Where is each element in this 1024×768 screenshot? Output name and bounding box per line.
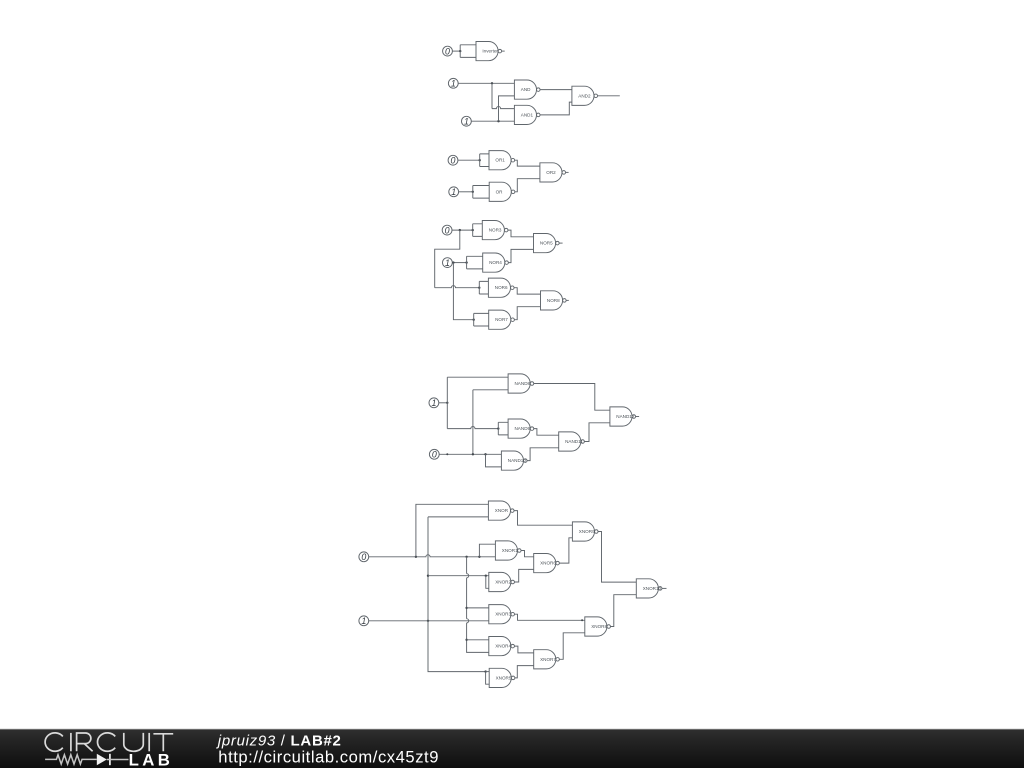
wire bus3 stub to XNOR3 top input bbox=[467, 607, 489, 609]
wire XNOR10 output bbox=[662, 587, 667, 589]
wire OR output to OR2 bottom input bbox=[515, 179, 540, 192]
svg-text:0: 0 bbox=[432, 450, 437, 460]
junction bbox=[427, 620, 429, 622]
junction bbox=[427, 575, 429, 577]
gate NAND12 bbox=[610, 407, 636, 426]
wire input 0 to OR1 loop bbox=[458, 159, 480, 161]
gate XNOR10 bbox=[636, 579, 662, 598]
gate XNOR9 bbox=[572, 522, 598, 541]
node IN_E1 input terminal 1 bbox=[429, 398, 439, 408]
gate XNOR8 bbox=[585, 617, 611, 636]
wire AND output to AND2 top input bbox=[540, 89, 572, 91]
wire bus2 stub to XNOR2 top input bbox=[428, 575, 489, 577]
wire branch up to AND bottom input bbox=[499, 96, 515, 121]
junction bbox=[473, 319, 475, 321]
gate NAND9 bbox=[508, 419, 534, 438]
wire bus3 vertical with hops to XNOR4 bottom input bbox=[467, 557, 489, 653]
wire across to NOR6 loop with hop bbox=[435, 286, 480, 288]
footer background bar bbox=[0, 729, 1024, 768]
wire into XNOR5 top input bbox=[486, 671, 490, 673]
wire OR1 input loop bbox=[480, 154, 489, 167]
junction bbox=[465, 261, 467, 263]
wire to NAND9 loop with hop bbox=[447, 427, 498, 429]
gate NOR5 bbox=[534, 234, 560, 253]
svg-text:XNOR3: XNOR3 bbox=[495, 612, 511, 617]
wire NAND10 input loop bbox=[486, 454, 502, 467]
wire NOR8 output bbox=[566, 299, 569, 301]
svg-text:XNOR1: XNOR1 bbox=[502, 548, 518, 553]
wire NOR7 input loop bbox=[474, 313, 489, 326]
node IN_A input terminal 0 bbox=[443, 46, 453, 56]
gate U1 bbox=[476, 42, 502, 61]
svg-text:1: 1 bbox=[451, 79, 456, 89]
wire XNOR3 output to XNOR8 top input bbox=[515, 614, 585, 620]
node IN_E2 input terminal 0 bbox=[429, 449, 439, 459]
wire NOR6 output to NOR8 top input bbox=[514, 288, 540, 294]
wire input 0 right bbox=[452, 229, 473, 231]
svg-text:OR1: OR1 bbox=[495, 158, 505, 163]
junction bbox=[484, 453, 486, 455]
svg-text:OR2: OR2 bbox=[546, 170, 556, 175]
junction bbox=[452, 261, 454, 263]
svg-text:1: 1 bbox=[464, 117, 469, 127]
gate OR bbox=[489, 182, 515, 201]
wire NAND8 output to NAND12 top input bbox=[534, 384, 610, 411]
svg-text:XNOR: XNOR bbox=[495, 508, 509, 513]
wire input 1 right bbox=[452, 262, 466, 264]
junction bbox=[415, 556, 417, 558]
gate XNOR bbox=[488, 501, 514, 520]
gate NAND10 bbox=[501, 451, 527, 470]
gate XNOR7 bbox=[534, 650, 560, 669]
gate NOR6 bbox=[488, 278, 514, 297]
gate AND2 bbox=[572, 86, 598, 105]
gate NAND11 bbox=[559, 432, 585, 451]
wire OR1 output to OR2 top input bbox=[515, 160, 540, 166]
svg-text:XNOR9: XNOR9 bbox=[579, 529, 595, 534]
node IN_D2 input terminal 1 bbox=[443, 258, 453, 268]
wire OR input loop bbox=[473, 186, 489, 199]
wire XNOR9 output to XNOR10 top input bbox=[598, 532, 636, 583]
svg-text:NOR6: NOR6 bbox=[495, 285, 508, 290]
gate NOR3 bbox=[482, 221, 508, 240]
svg-text:XNOR5: XNOR5 bbox=[496, 675, 512, 680]
wire XNOR4 output to XNOR7 top input bbox=[515, 646, 534, 653]
svg-text:NOR5: NOR5 bbox=[540, 241, 553, 246]
node IN_F2 input terminal 1 bbox=[359, 616, 369, 626]
svg-text:1: 1 bbox=[445, 258, 450, 268]
wire input 1 stub bbox=[439, 402, 448, 404]
wire 1 branch down to NOR7 bbox=[453, 263, 473, 320]
wire XNOR5 output to XNOR7 bottom input bbox=[515, 666, 534, 678]
svg-text:XNOR4: XNOR4 bbox=[495, 644, 511, 649]
svg-text:NAND10: NAND10 bbox=[508, 458, 527, 463]
wire XNOR6 output to XNOR9 bottom input bbox=[559, 538, 572, 563]
junction bbox=[497, 427, 499, 429]
wire bus2 vertical down to XNOR5 bbox=[428, 517, 486, 672]
junction bbox=[491, 82, 493, 84]
svg-text:LAB: LAB bbox=[129, 750, 174, 768]
gate OR1 bbox=[489, 151, 515, 170]
junction bbox=[472, 191, 474, 193]
gate XNOR1 bbox=[495, 541, 521, 560]
wire vertical branch of 1 bbox=[446, 377, 448, 428]
junction bbox=[465, 607, 467, 609]
wire NAND9 input loop bbox=[498, 422, 508, 435]
svg-text:0: 0 bbox=[361, 552, 366, 562]
wire bus2 top to XNOR bottom input bbox=[428, 516, 488, 518]
svg-text:AND1: AND1 bbox=[521, 112, 534, 117]
svg-text:NOR7: NOR7 bbox=[495, 317, 508, 322]
svg-text:Inverter: Inverter bbox=[482, 49, 498, 54]
svg-text:1: 1 bbox=[451, 187, 456, 197]
gate NOR4 bbox=[483, 253, 509, 272]
junction bbox=[446, 402, 448, 404]
svg-text:NAND9: NAND9 bbox=[515, 426, 531, 431]
gate NAND8 bbox=[508, 374, 534, 393]
svg-text:NOR4: NOR4 bbox=[489, 260, 502, 265]
wire NAND9 output to NAND11 top input bbox=[534, 429, 559, 436]
junction bbox=[485, 575, 487, 577]
svg-text:XNOR2: XNOR2 bbox=[495, 580, 511, 585]
junction bbox=[459, 50, 461, 52]
node IN_D1 input terminal 0 bbox=[442, 225, 452, 235]
wire XNOR2 output to XNOR6 bottom input bbox=[515, 569, 534, 582]
wire XNOR2 input loop bbox=[486, 576, 489, 589]
svg-text:XNOR10: XNOR10 bbox=[643, 586, 662, 591]
gate NOR7 bbox=[489, 310, 515, 329]
junction bbox=[465, 639, 467, 641]
wire AND2 output bbox=[598, 95, 620, 97]
junction bbox=[459, 229, 461, 231]
wire XNOR1 input loop bbox=[479, 544, 495, 557]
wire NOR3 input loop bbox=[473, 224, 483, 237]
wire input 0 to loop bbox=[452, 50, 460, 52]
svg-text:OR: OR bbox=[496, 189, 504, 194]
svg-text:NAND8: NAND8 bbox=[515, 381, 531, 386]
svg-text:http://circuitlab.com/cx45zt9: http://circuitlab.com/cx45zt9 bbox=[218, 748, 439, 767]
node IN_C1 input terminal 0 bbox=[448, 155, 458, 165]
node IN_B2 input terminal 1 bbox=[462, 116, 472, 126]
junction bbox=[465, 556, 467, 558]
gate XNOR6 bbox=[534, 554, 560, 573]
junction bbox=[478, 556, 480, 558]
wire XNOR5 input loop bbox=[486, 672, 490, 685]
junction bbox=[581, 619, 583, 621]
gate XNOR4 bbox=[489, 637, 515, 656]
svg-text:AND: AND bbox=[521, 87, 531, 92]
gate NOR8 bbox=[541, 291, 567, 310]
svg-text:NOR8: NOR8 bbox=[547, 298, 560, 303]
node IN_C2 input terminal 1 bbox=[449, 187, 459, 197]
wire NOR5 output bbox=[559, 242, 562, 244]
wire NOR4 output to NOR5 bottom input bbox=[508, 249, 533, 262]
svg-text:XNOR7: XNOR7 bbox=[540, 657, 556, 662]
svg-text:XNOR8: XNOR8 bbox=[591, 624, 607, 629]
wire NOR7 output to NOR8 bottom input bbox=[514, 307, 540, 320]
wire to NAND8 bottom input bbox=[473, 389, 508, 391]
node IN_B1 input terminal 1 bbox=[448, 78, 458, 88]
svg-text:1: 1 bbox=[431, 398, 436, 408]
CircuitLab logo word CIRCUIT bbox=[45, 733, 173, 751]
junction bbox=[472, 453, 474, 455]
junction bbox=[497, 120, 499, 122]
svg-text:0: 0 bbox=[451, 156, 456, 166]
svg-text:NAND11: NAND11 bbox=[565, 439, 583, 444]
wire NAND11 output to NAND12 bottom input bbox=[584, 423, 610, 442]
wire to NAND8 top input bbox=[447, 376, 508, 378]
wire NOR6 input loop bbox=[479, 281, 488, 294]
gate XNOR2 bbox=[489, 572, 515, 591]
svg-text:XNOR6: XNOR6 bbox=[540, 561, 556, 566]
wire 0 branch down-left-down bbox=[435, 230, 460, 288]
svg-text:NOR3: NOR3 bbox=[489, 228, 502, 233]
junction bbox=[472, 229, 474, 231]
svg-text:1: 1 bbox=[361, 616, 366, 626]
svg-text:NAND12: NAND12 bbox=[616, 414, 635, 419]
svg-text:0: 0 bbox=[445, 225, 450, 235]
wire inverter input loop bbox=[460, 45, 476, 58]
gate OR2 bbox=[540, 163, 566, 182]
junction bbox=[479, 159, 481, 161]
wire input 1 to AND top input bbox=[458, 82, 514, 84]
wire input 1 to AND1 bottom input bbox=[471, 120, 514, 122]
gate AND bbox=[514, 80, 540, 99]
wire vertical joining 0 line to NAND8 bottom input bbox=[472, 390, 474, 455]
wire XNOR8 output to XNOR10 bottom input bbox=[611, 595, 637, 627]
junction bbox=[446, 453, 448, 455]
wire inverter output stub bbox=[502, 50, 505, 52]
gate XNOR5 bbox=[489, 668, 515, 687]
junction bbox=[484, 670, 486, 672]
gate AND1 bbox=[514, 105, 540, 124]
wire branch down from top 1 bbox=[491, 83, 493, 108]
wire OR2 output bbox=[566, 171, 569, 173]
gate XNOR3 bbox=[489, 605, 515, 624]
wire 0 up to XNOR top input bbox=[416, 504, 489, 557]
wire AND1 output to AND2 bottom input bbox=[540, 102, 572, 115]
wire input 1 to OR loop bbox=[459, 191, 473, 193]
wire bus3 stub to XNOR4 top input bbox=[467, 639, 489, 641]
wire to AND1 top input with hop bbox=[492, 107, 514, 109]
CircuitLab logo resistor and diode symbol bbox=[45, 755, 97, 764]
junction bbox=[478, 287, 480, 289]
wire input 0 across with hop bbox=[369, 555, 496, 557]
wire input 1 to XNOR3 bottom input bbox=[369, 620, 489, 622]
wire NAND10 output to NAND11 bottom input bbox=[527, 448, 559, 461]
wire XNOR7 output to XNOR8 bottom input bbox=[559, 633, 584, 660]
svg-text:0: 0 bbox=[445, 46, 450, 56]
wire input 0 to NAND10 bbox=[439, 453, 501, 455]
wire NAND12 output bbox=[636, 416, 640, 418]
wire XNOR1 output to XNOR6 top input bbox=[521, 551, 534, 557]
wire XNOR output to XNOR9 top input bbox=[514, 511, 572, 526]
node IN_F1 input terminal 0 bbox=[359, 552, 369, 562]
wire NOR3 output to NOR5 top input bbox=[508, 230, 534, 237]
svg-text:AND2: AND2 bbox=[578, 93, 591, 98]
wire NOR4 input loop bbox=[467, 256, 483, 269]
